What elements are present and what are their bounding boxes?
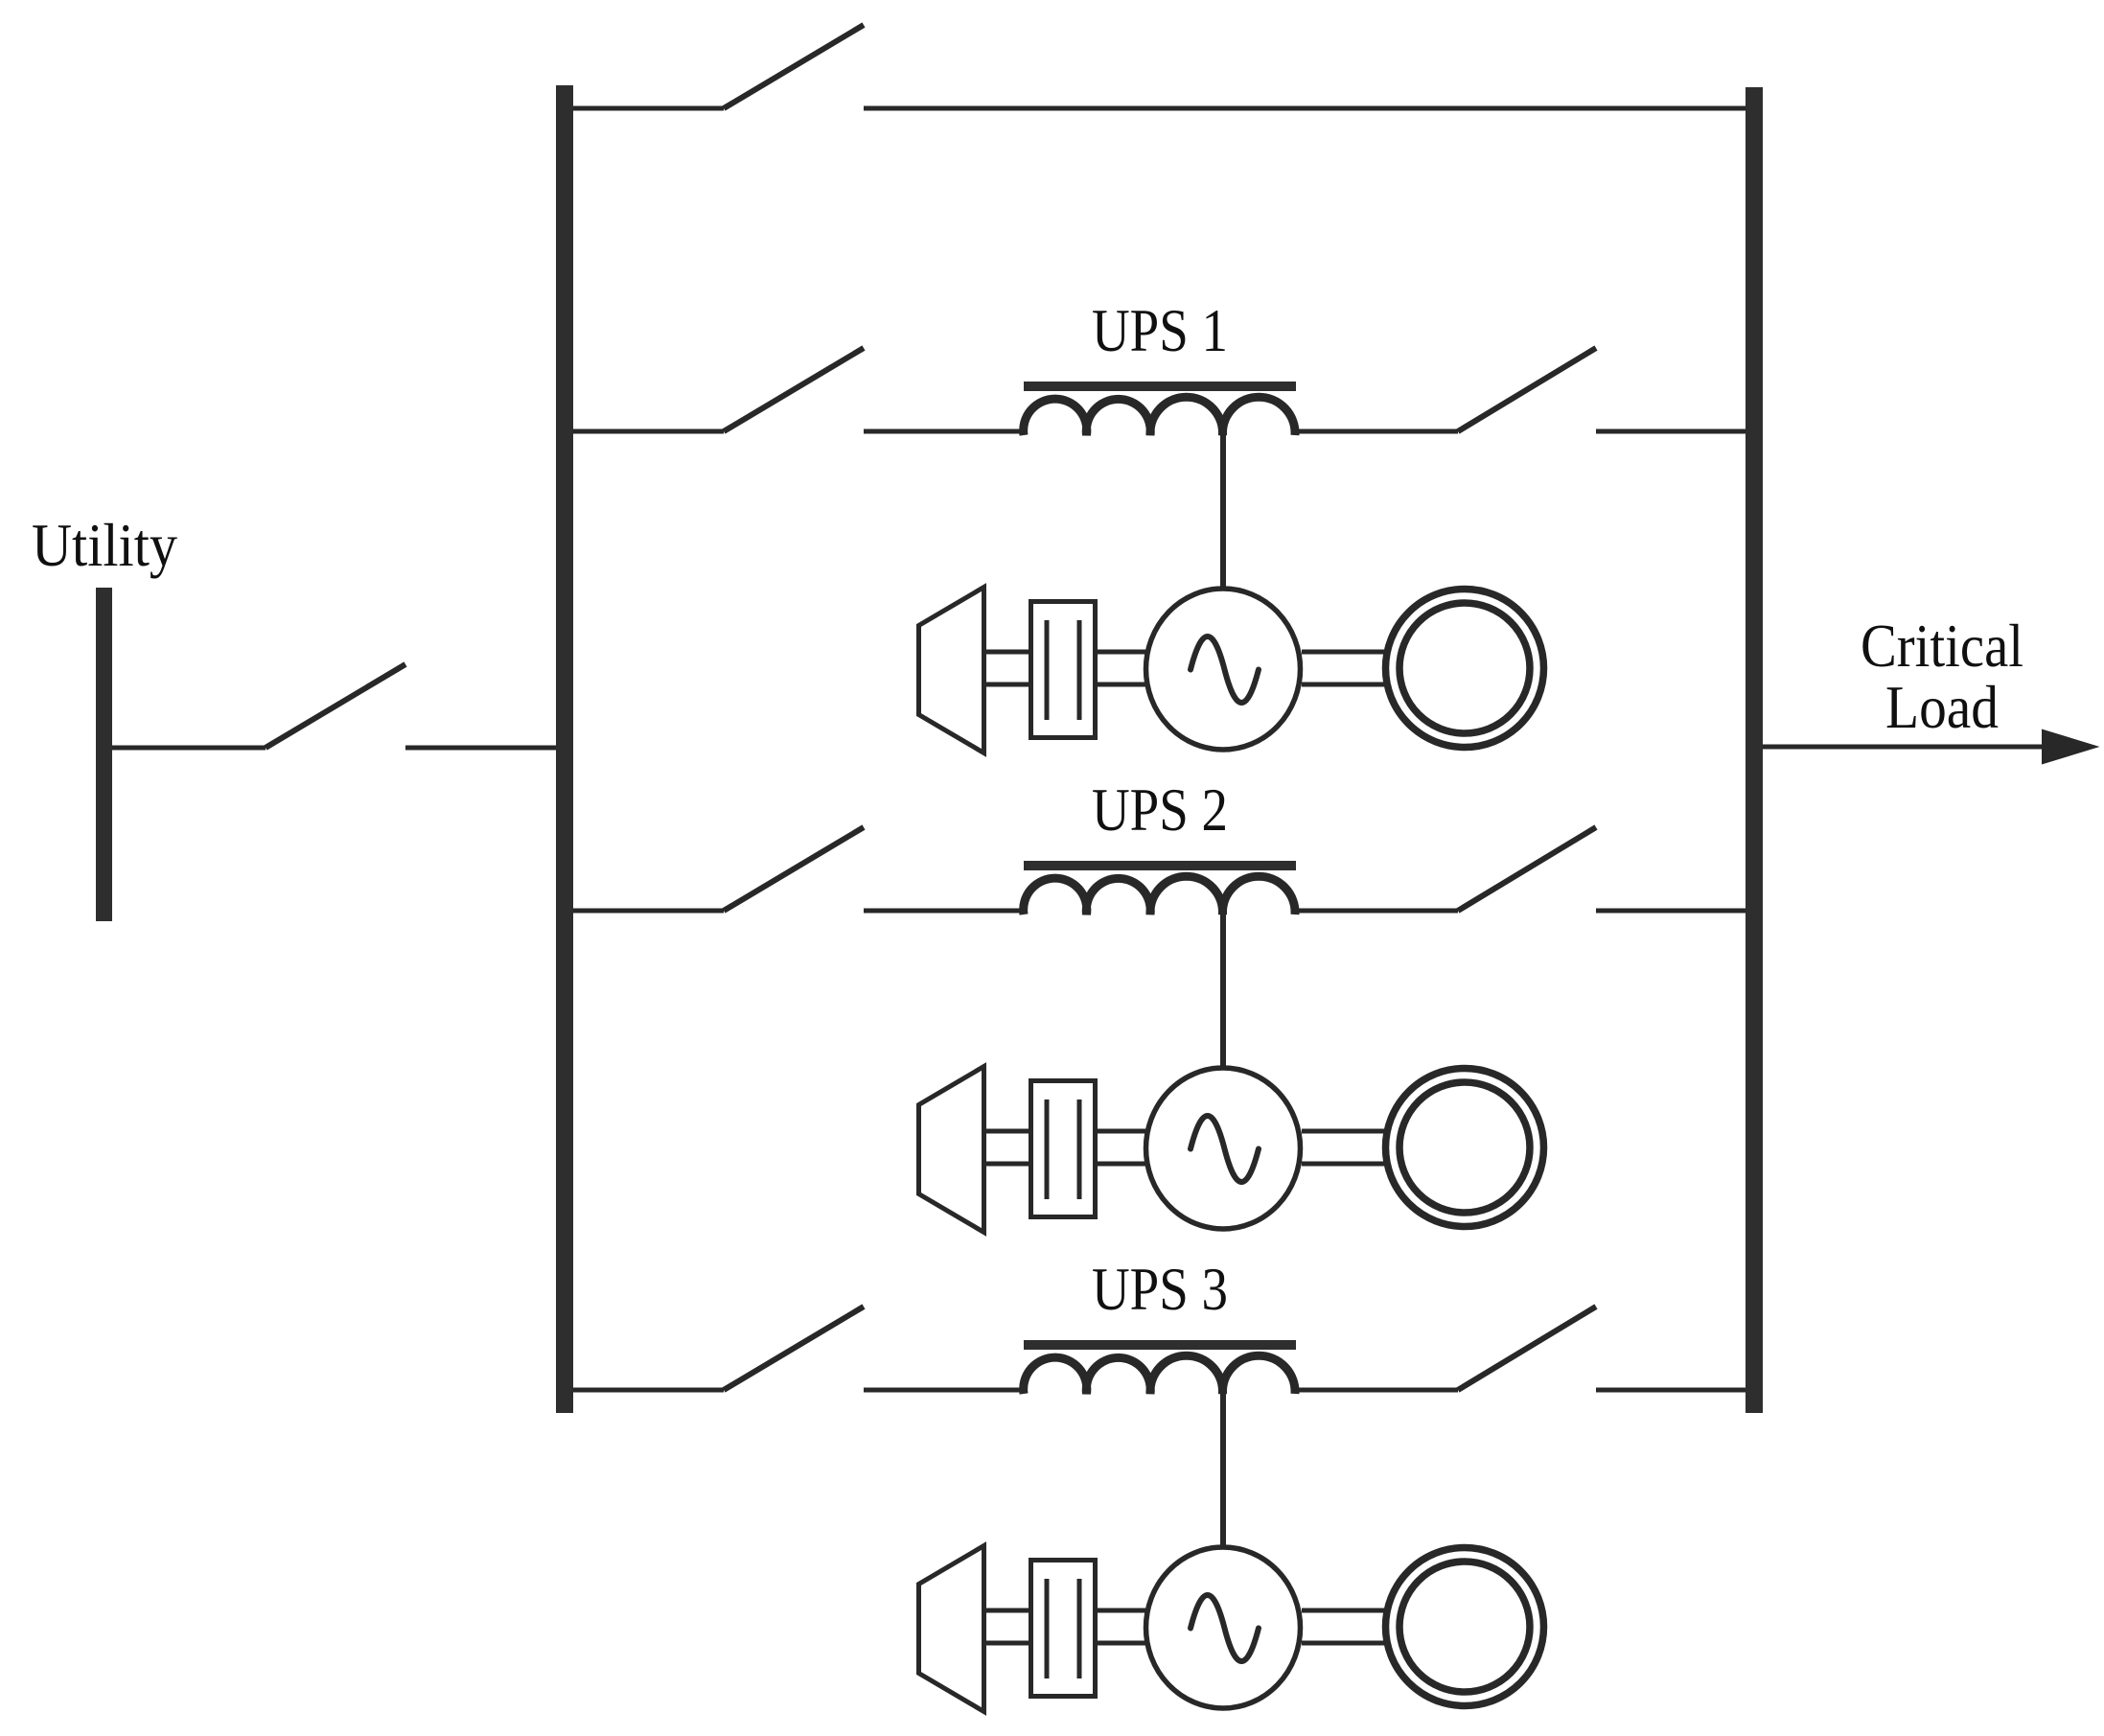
svg-text:UPS 1: UPS 1 — [1092, 296, 1228, 364]
svg-text:Utility: Utility — [32, 511, 177, 579]
svg-text:UPS 3: UPS 3 — [1092, 1255, 1228, 1323]
svg-text:Critical: Critical — [1861, 612, 2023, 680]
svg-text:Load: Load — [1885, 673, 1999, 741]
svg-text:UPS 2: UPS 2 — [1092, 775, 1228, 844]
